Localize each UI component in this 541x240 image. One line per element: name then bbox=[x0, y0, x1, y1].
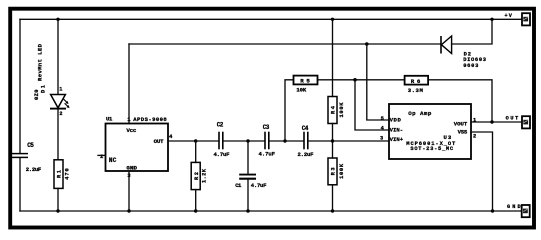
svg-text:VOUT: VOUT bbox=[454, 120, 468, 127]
node C1 / GND rail bbox=[246, 209, 249, 212]
connector GND bbox=[507, 204, 530, 217]
svg-text:VIN-: VIN- bbox=[390, 126, 404, 133]
svg-text:APDS-9008: APDS-9008 bbox=[133, 116, 167, 123]
svg-text:GND: GND bbox=[126, 164, 137, 171]
svg-text:5: 5 bbox=[381, 116, 384, 122]
wire VIN- drop bbox=[355, 80, 389, 130]
capacitor C1 bbox=[235, 175, 267, 189]
wire C1 to GND rail bbox=[247, 180, 249, 212]
capacitor C3 bbox=[259, 124, 276, 158]
svg-text:3: 3 bbox=[380, 136, 383, 142]
node D2 link / top rail bbox=[490, 18, 493, 21]
resistor R6 bbox=[405, 76, 429, 94]
svg-text:SOT-23-5_MC: SOT-23-5_MC bbox=[410, 146, 453, 152]
wire left rail lower (C5 to GND rail) bbox=[19, 158, 21, 211]
node R6 / VOUT bbox=[490, 120, 493, 123]
svg-text:0Z0: 0Z0 bbox=[34, 90, 40, 101]
svg-text:U3: U3 bbox=[444, 134, 452, 141]
svg-text:U1: U1 bbox=[106, 116, 113, 123]
svg-text:NC: NC bbox=[109, 157, 117, 164]
wire LED anode from top rail bbox=[57, 19, 59, 94]
svg-text:GND: GND bbox=[507, 204, 521, 210]
svg-text:VDD: VDD bbox=[390, 117, 402, 124]
svg-text:C4: C4 bbox=[302, 125, 309, 132]
svg-text:1.2K: 1.2K bbox=[202, 168, 208, 183]
connector OUT bbox=[506, 116, 530, 129]
svg-text:R4: R4 bbox=[331, 105, 337, 114]
wire U1 pin2 stub bbox=[98, 154, 106, 156]
wire C1 branch upper bbox=[247, 141, 249, 174]
wire VDD riser to op-amp pin5 bbox=[367, 44, 389, 120]
svg-text:2: 2 bbox=[59, 111, 62, 117]
svg-text:VIN+: VIN+ bbox=[390, 136, 404, 143]
wire C2 to C3 bbox=[224, 140, 265, 142]
wire top rail to R4 bbox=[332, 19, 334, 96]
node R2 / GND rail bbox=[194, 209, 197, 212]
node C1 branch / main wire bbox=[246, 139, 249, 142]
resistor R1 bbox=[54, 160, 70, 189]
svg-text:Vcc: Vcc bbox=[126, 127, 137, 134]
resistor R2 bbox=[191, 162, 207, 189]
node feedback tee bbox=[353, 78, 357, 82]
svg-text:C2: C2 bbox=[217, 121, 224, 128]
svg-text:RevMnt LED: RevMnt LED bbox=[36, 43, 43, 81]
wire R1 to GND rail bbox=[57, 188, 59, 211]
svg-text:C1: C1 bbox=[235, 182, 242, 189]
wire C4 to op-amp VIN+ bbox=[309, 140, 390, 142]
svg-text:OUT: OUT bbox=[506, 116, 519, 122]
node R1 / GND rail bbox=[56, 209, 59, 212]
svg-text:D1: D1 bbox=[40, 85, 46, 93]
node R4 / top rail bbox=[331, 18, 334, 21]
wire U1 pin3 to GND rail bbox=[128, 171, 130, 211]
wire R3 to GND rail bbox=[332, 185, 334, 211]
svg-text:4.7uF: 4.7uF bbox=[259, 151, 276, 158]
svg-text:0603: 0603 bbox=[463, 63, 478, 69]
resistor R3 bbox=[328, 158, 345, 185]
svg-text:C3: C3 bbox=[263, 124, 270, 131]
wire LED cathode to R1 bbox=[57, 109, 59, 160]
node U1 pin3 / GND rail bbox=[127, 209, 130, 212]
node R4-R3 / main wire bbox=[331, 139, 334, 142]
svg-text:R1: R1 bbox=[57, 170, 63, 178]
wire left rail upper (top rail to C5) bbox=[19, 19, 21, 153]
LED D1 bbox=[34, 43, 70, 117]
IC U1 APDS-9008 bbox=[100, 116, 173, 179]
node top rail / LED bbox=[56, 18, 59, 21]
wire main signal U1 OUT to C2 bbox=[168, 140, 218, 142]
resistor R5 bbox=[294, 76, 318, 94]
wire R4 to main wire bbox=[332, 124, 334, 159]
capacitor C2 bbox=[214, 121, 231, 158]
svg-text:+V: +V bbox=[505, 13, 513, 19]
wire VSS to GND rail bbox=[471, 132, 493, 211]
capacitor C5 bbox=[12, 142, 42, 173]
wire +V top rail bbox=[20, 18, 522, 20]
svg-text:4.7uF: 4.7uF bbox=[251, 182, 267, 189]
svg-text:2: 2 bbox=[473, 134, 476, 140]
wire R5 left lead bbox=[285, 80, 294, 141]
wire R2 upper branch bbox=[195, 141, 197, 162]
wire R6 to VOUT node bbox=[428, 80, 492, 122]
op-amp U3 MCP6001 bbox=[380, 104, 476, 159]
svg-text:VSS: VSS bbox=[458, 129, 468, 136]
svg-text:Op Amp: Op Amp bbox=[408, 110, 432, 117]
svg-text:R2: R2 bbox=[194, 172, 200, 180]
wire C3 to C4 bbox=[270, 140, 304, 142]
wire VOUT to OUT connector bbox=[471, 121, 522, 123]
wire R5 to R6 / VIN- node bbox=[318, 79, 405, 81]
connector +V bbox=[505, 13, 531, 25]
wire Vcc horizontal line to D2 bbox=[129, 43, 441, 45]
wire GND bottom rail bbox=[20, 210, 523, 212]
svg-text:4.7uF: 4.7uF bbox=[214, 151, 231, 158]
diode D2 bbox=[441, 36, 486, 69]
node R2 / main wire bbox=[194, 139, 197, 142]
svg-text:470: 470 bbox=[64, 168, 70, 180]
node VDD riser / Vcc line bbox=[365, 42, 369, 46]
svg-text:C5: C5 bbox=[27, 142, 34, 149]
svg-text:10K: 10K bbox=[296, 86, 306, 93]
svg-text:R3: R3 bbox=[331, 167, 337, 175]
node R5 branch / main wire bbox=[283, 139, 286, 142]
svg-text:2.2uF: 2.2uF bbox=[26, 166, 42, 173]
svg-text:3.3M: 3.3M bbox=[408, 87, 424, 94]
svg-text:100K: 100K bbox=[339, 163, 345, 179]
resistor R4 bbox=[328, 97, 345, 124]
wire U1 Vcc riser bbox=[128, 44, 130, 124]
svg-text:OUT: OUT bbox=[154, 138, 165, 145]
svg-text:1: 1 bbox=[59, 86, 62, 92]
node R3 / GND rail bbox=[331, 209, 334, 212]
wire D2 to +V rail bbox=[452, 19, 492, 44]
svg-text:100K: 100K bbox=[339, 102, 345, 118]
capacitor C4 bbox=[298, 125, 315, 158]
node VSS / GND rail bbox=[491, 209, 494, 212]
svg-text:2.2uF: 2.2uF bbox=[298, 151, 315, 158]
wire R2 to GND rail bbox=[195, 190, 197, 211]
